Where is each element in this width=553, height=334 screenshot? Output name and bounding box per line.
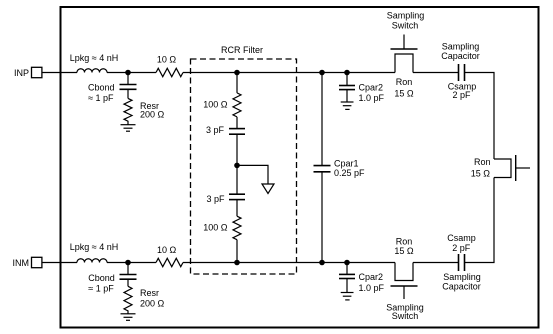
node C (top rail / Cpar1 branch)	[319, 70, 325, 76]
inductor Lpkg (top)	[77, 69, 107, 73]
svg-text:Csamp: Csamp	[447, 233, 476, 243]
svg-text:3 pF: 3 pF	[206, 194, 225, 204]
svg-text:Capacitor: Capacitor	[442, 281, 481, 291]
node E (RCR midpoint)	[234, 163, 240, 169]
svg-text:100 Ω: 100 Ω	[203, 223, 228, 233]
capacitor Cbond label (top)	[88, 83, 115, 104]
wire 10 ohm to inductor (bottom)	[107, 262, 156, 264]
svg-text:200 Ω: 200 Ω	[140, 110, 165, 120]
transistor sampling switch (bottom)	[391, 263, 418, 300]
ground (top Cpar2)	[341, 102, 354, 109]
svg-text:INP: INP	[14, 68, 29, 78]
Sampling Capacitor label (top)	[441, 41, 480, 61]
capacitor 3 pF (bottom of filter)	[229, 194, 245, 199]
svg-text:100 Ω: 100 Ω	[203, 100, 228, 110]
svg-text:RCR Filter: RCR Filter	[221, 45, 263, 55]
INP label	[14, 68, 29, 78]
capacitor Cbond label (bottom)	[88, 273, 115, 294]
svg-text:Sampling: Sampling	[387, 11, 425, 21]
transistor sampling switch (top)	[391, 35, 418, 73]
common-mode arrow symbol	[262, 184, 274, 194]
svg-text:Cpar2: Cpar2	[359, 272, 384, 282]
inductor Lpkg (bottom)	[77, 259, 107, 263]
node H (bottom rail / RCR column)	[234, 260, 240, 266]
svg-text:10 Ω: 10 Ω	[157, 245, 177, 255]
capacitor 3 pF (top)	[229, 129, 245, 135]
resistor Resr (bottom)	[124, 286, 132, 314]
Ron 15 ohm label (right transistor)	[471, 157, 491, 179]
svg-text:Ron: Ron	[396, 237, 413, 247]
resistor 100 ohm label (top)	[203, 100, 228, 110]
wire inductor to INM terminal	[42, 262, 77, 264]
capacitor 3 pF label (top)	[206, 125, 225, 135]
resistor Resr (top)	[124, 98, 132, 124]
svg-text:15 Ω: 15 Ω	[394, 89, 414, 99]
svg-text:0.25 pF: 0.25 pF	[334, 168, 365, 178]
Ron 15 ohm label (bottom switch)	[394, 237, 414, 257]
capacitor Cpar2 (bottom)	[339, 263, 355, 293]
resistor 10 ohm label (bottom)	[157, 245, 177, 255]
node D (top rail / Cpar2 branch)	[344, 70, 350, 76]
capacitor 3 pF label (bottom of filter)	[206, 194, 225, 204]
svg-text:Ron: Ron	[396, 77, 413, 87]
resistor 100 ohm (bottom of filter)	[233, 216, 241, 240]
capacitor Csamp (top)	[459, 64, 465, 81]
wire 100 ohm to bottom rail	[236, 240, 238, 263]
svg-text:Resr: Resr	[140, 288, 159, 298]
wire switch to Csamp (top)	[413, 72, 459, 74]
node F (bottom rail / Cpar2 branch)	[344, 260, 350, 266]
svg-text:200 Ω: 200 Ω	[140, 299, 165, 309]
resistor 10 ohm (top)	[156, 68, 183, 76]
capacitor Csamp (bottom)	[459, 254, 465, 271]
Csamp 2 pF label (top)	[448, 82, 477, 100]
wire 3pF to middle node	[236, 134, 238, 194]
svg-text:Cpar2: Cpar2	[359, 83, 384, 93]
INP terminal	[32, 67, 42, 77]
ground (bottom Cpar2)	[341, 293, 354, 300]
resistor Resr label (top)	[140, 101, 165, 120]
wire node B down to 100 ohm (top)	[236, 73, 238, 93]
resistor 10 ohm label (top)	[157, 55, 177, 65]
node B (top rail / RCR column)	[234, 70, 240, 76]
svg-text:3 pF: 3 pF	[206, 125, 225, 135]
inductor Lpkg label (top)	[70, 53, 118, 63]
wire midpoint to common-mode arrow	[237, 165, 268, 183]
node I (bottom Cbond junction)	[125, 260, 131, 266]
wire 3pF to 100 ohm (bottom of filter)	[236, 200, 238, 217]
svg-text:15 Ω: 15 Ω	[394, 246, 414, 256]
capacitor Cbond (top)	[120, 73, 137, 99]
svg-text:Switch: Switch	[392, 311, 419, 321]
svg-text:15 Ω: 15 Ω	[471, 169, 491, 179]
wire Csamp to switch (bottom rail)	[413, 262, 459, 264]
Csamp 2 pF label (bottom)	[447, 233, 476, 253]
svg-text:Switch: Switch	[392, 21, 419, 31]
Sampling Switch label (top)	[387, 11, 425, 31]
resistor 10 ohm (bottom)	[156, 258, 183, 266]
svg-text:Cbond: Cbond	[88, 273, 115, 283]
capacitor Cpar2 label (bottom)	[359, 272, 385, 293]
RCR Filter dashed box	[191, 59, 297, 274]
resistor 100 ohm (top)	[233, 93, 241, 117]
node G (bottom rail / Cpar1 branch)	[319, 260, 325, 266]
RCR Filter label	[221, 45, 263, 55]
wire 10 ohm to sampling switch (top rail)	[183, 72, 395, 74]
svg-text:Cbond: Cbond	[88, 83, 115, 93]
resistor Resr label (bottom)	[140, 288, 165, 309]
svg-text:INM: INM	[13, 258, 30, 268]
svg-text:Capacitor: Capacitor	[441, 51, 480, 61]
transistor Ron (right)	[494, 155, 530, 181]
INM terminal	[32, 257, 42, 267]
capacitor Cpar2 label (top)	[359, 83, 385, 104]
svg-text:Lpkg ≈ 4 nH: Lpkg ≈ 4 nH	[70, 242, 118, 252]
svg-text:1.0 pF: 1.0 pF	[359, 93, 385, 103]
ground (bottom Resr)	[121, 314, 136, 321]
wire right transistor down to bottom rail	[465, 178, 495, 263]
ground (top Resr)	[121, 125, 136, 132]
wire INP to inductor	[42, 72, 77, 74]
Sampling Capacitor label (bottom)	[442, 272, 481, 291]
Ron 15 ohm label (top switch)	[394, 77, 414, 99]
svg-text:2 pF: 2 pF	[452, 243, 471, 253]
INM label	[13, 258, 30, 268]
wire switch to 10 ohm (bottom rail)	[183, 262, 395, 264]
Sampling Switch label (bottom)	[386, 303, 424, 322]
svg-text:10 Ω: 10 Ω	[157, 55, 177, 65]
svg-text:2 pF: 2 pF	[452, 90, 471, 100]
svg-text:≈ 1 pF: ≈ 1 pF	[88, 284, 114, 294]
capacitor Cpar1 label	[334, 159, 365, 178]
node A (top Cbond junction)	[125, 70, 131, 76]
svg-text:Lpkg ≈ 4 nH: Lpkg ≈ 4 nH	[70, 53, 118, 63]
capacitor Cbond (bottom)	[120, 263, 137, 287]
svg-text:Ron: Ron	[474, 157, 491, 167]
inductor Lpkg label (bottom)	[70, 242, 118, 252]
svg-text:≈ 1 pF: ≈ 1 pF	[88, 93, 114, 103]
svg-text:Sampling: Sampling	[442, 41, 480, 51]
wire Csamp to right corner (top)	[465, 73, 495, 160]
wire inductor to node A	[107, 72, 156, 74]
svg-text:1.0 pF: 1.0 pF	[359, 283, 385, 293]
resistor 100 ohm label (bottom of filter)	[203, 223, 228, 233]
capacitor Cpar1	[314, 73, 331, 263]
wire 100 ohm to 3pF (top)	[236, 117, 238, 129]
capacitor Cpar2 (top)	[339, 73, 355, 103]
